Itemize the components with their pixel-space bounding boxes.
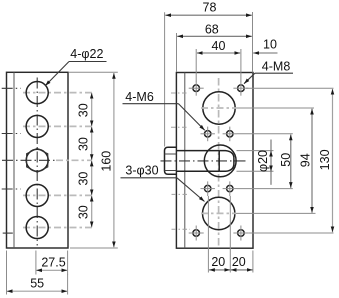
shaft top line [176,150,219,152]
78 dimension line [165,14,252,16]
27.5 dimension line [36,269,67,271]
27.5 dimension extension lines [35,251,37,275]
M6 hole row2-left [201,181,215,196]
94 dimension line [311,109,313,213]
20 20 dimension lines [209,269,230,271]
big circle middle (phi30) [204,145,236,177]
svg-text:40: 40 [212,39,226,53]
svg-text:4-M6: 4-M6 [125,90,154,104]
svg-text:4-M8: 4-M8 [262,60,291,74]
big circle 3 horizontal centerline [201,212,236,214]
left view inner edge line [13,72,15,248]
shaft bottom line [176,170,219,172]
3-phi30 leader [121,177,177,179]
left view plate outline [7,72,69,248]
M8 hole top-right [233,81,248,96]
phi20 dimension line with outside arrows [270,140,272,185]
20-dim extension column right [229,196,231,273]
shaft dome nose [219,151,234,172]
hex bolt head side view [165,147,177,174]
row extension lines right side [236,88,334,233]
68 dimension line [177,35,252,37]
20 20 dimension extension lines [252,251,254,273]
hole circle 2 [26,115,48,137]
svg-text:30: 30 [77,172,91,186]
4-phi22 leader [69,61,107,63]
hole row centerline ticks on left edge [2,88,56,233]
hole circle 5 [26,216,48,238]
svg-text:3-φ30: 3-φ30 [125,163,158,177]
160 dimension line [113,73,115,247]
68 dimension extension line [176,33,178,72]
svg-text:68: 68 [205,23,219,37]
left view vertical centerline [36,78,38,246]
40 dimension line [197,52,240,54]
20-dim extension column left [207,196,209,273]
svg-text:30: 30 [77,103,91,117]
right view vertical centerline [218,78,220,246]
M8 hole bottom-right [233,226,248,241]
160 dimension extension lines [69,71,118,73]
shaft end vertical [218,151,220,172]
M8 hole top-left [189,81,204,96]
hole circle 3 (with hex) [26,149,48,171]
svg-text:130: 130 [318,149,332,170]
svg-text:27.5: 27.5 [41,255,65,269]
svg-text:55: 55 [30,276,44,290]
svg-text:30: 30 [77,137,91,151]
40 dimension extension lines [195,49,197,82]
130 dimension line [332,89,334,232]
svg-text:94: 94 [298,153,312,167]
svg-text:50: 50 [279,153,293,167]
right view inner edge line [184,73,186,249]
svg-text:160: 160 [100,151,114,172]
left edge row ticks right view [171,93,190,229]
dimension chain 30 x4 [91,93,93,227]
big circle top (phi30) [203,92,235,124]
svg-text:4-φ22: 4-φ22 [70,47,103,61]
svg-text:78: 78 [203,0,217,14]
4-M8 leader [255,72,293,74]
svg-text:φ20: φ20 [256,150,270,172]
big circle bottom (phi30) [203,197,235,229]
hole row centerlines / extension lines to 30-dim [23,93,92,228]
M6 hole row2-right [223,181,237,196]
hex outline around hole 3 [27,148,48,172]
hole circle 4 [26,184,48,206]
svg-text:20: 20 [232,255,246,269]
M8 hole bottom-left [189,226,204,241]
55 dimension extension lines [6,251,8,295]
hex head facet lines [165,153,177,155]
svg-text:10: 10 [263,38,277,52]
right view horizontal centerline through shaft [161,160,247,162]
svg-text:20: 20 [211,255,225,269]
hole circle 1 [26,82,48,104]
10 dimension line with outside arrow [253,52,277,54]
4-M6 leader [123,103,179,105]
svg-text:30: 30 [77,205,91,219]
right view plate outline [176,73,253,249]
big circle 1 horizontal centerline [201,107,237,109]
55 dimension line [7,290,68,292]
78 dimension extension lines [164,12,166,146]
M6 hole row1-right [223,127,237,142]
M6 hole row1-left [201,127,215,142]
50 dimension line [290,135,292,188]
